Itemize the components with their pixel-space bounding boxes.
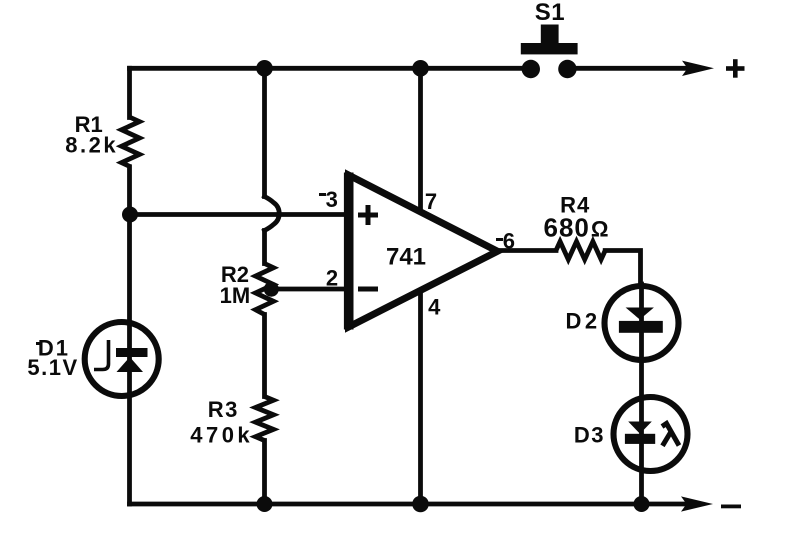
- svg-text:5.1V: 5.1V: [27, 355, 78, 380]
- svg-text:8.2k: 8.2k: [65, 133, 118, 158]
- svg-text:D3: D3: [574, 422, 605, 447]
- svg-text:S1: S1: [535, 0, 565, 26]
- svg-text:6: 6: [503, 229, 515, 254]
- svg-text:4: 4: [428, 295, 441, 320]
- svg-text:D2: D2: [565, 309, 600, 334]
- svg-text:7: 7: [425, 189, 437, 214]
- svg-text:741: 741: [386, 244, 426, 271]
- svg-text:470k: 470k: [190, 422, 253, 447]
- svg-text:R3: R3: [208, 397, 239, 422]
- svg-text:680Ω: 680Ω: [543, 213, 608, 243]
- svg-text:3: 3: [326, 187, 338, 212]
- svg-text:1M: 1M: [220, 283, 251, 308]
- svg-text:2: 2: [326, 265, 338, 290]
